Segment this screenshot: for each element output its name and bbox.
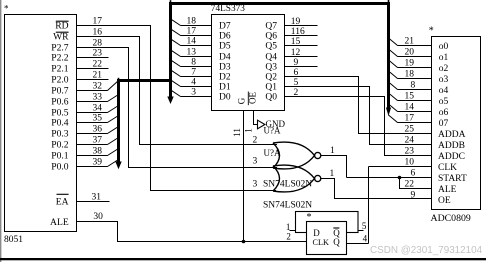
svg-text:o1: o1 [439,53,449,63]
svg-text:Q: Q [333,237,340,247]
svg-text:o0: o0 [439,42,449,52]
svg-text:P2.0: P2.0 [51,75,69,86]
svg-text:o6: o6 [439,108,449,118]
svg-text:o5: o5 [439,97,449,107]
svg-text:*: * [4,4,9,14]
svg-text:Q3: Q3 [265,63,277,73]
svg-text:Q2: Q2 [265,73,277,83]
svg-text:6: 6 [411,168,416,178]
svg-text:P0.0: P0.0 [51,162,69,173]
svg-text:CLK: CLK [438,163,457,173]
svg-text:1: 1 [330,146,335,156]
svg-text:P2.1: P2.1 [51,64,69,75]
svg-text:4: 4 [363,234,368,244]
svg-text:2: 2 [253,135,258,145]
svg-text:G: G [237,97,247,104]
svg-text:9: 9 [411,190,416,200]
svg-text:14: 14 [405,102,415,112]
svg-text:18: 18 [405,69,415,79]
svg-text:3: 3 [253,156,258,166]
svg-text:U?A: U?A [264,126,281,136]
svg-text:D5: D5 [219,42,231,52]
svg-text:D0: D0 [219,93,231,103]
svg-text:WR: WR [53,32,69,43]
svg-text:*: * [307,212,312,223]
svg-text:ADDC: ADDC [438,152,465,162]
svg-text:8: 8 [411,80,416,90]
svg-text:P0.6: P0.6 [51,97,69,108]
svg-text:1: 1 [330,169,335,179]
svg-text:CSDN @2301_79312104: CSDN @2301_79312104 [370,245,483,256]
svg-text:Q6: Q6 [265,32,277,42]
svg-text:P0.4: P0.4 [51,118,69,129]
svg-text:Q4: Q4 [265,53,277,63]
svg-text:1: 1 [244,128,254,133]
svg-text:SN74LS02N: SN74LS02N [263,179,312,189]
svg-text:ALE: ALE [438,185,457,195]
svg-text:8051: 8051 [4,235,23,245]
svg-text:P0.2: P0.2 [51,140,69,151]
svg-text:ALE: ALE [50,217,69,228]
svg-text:30: 30 [93,212,103,222]
svg-text:D4: D4 [219,53,231,63]
svg-text:CLK: CLK [313,238,329,247]
svg-text:D7: D7 [219,22,231,32]
svg-text:23: 23 [405,146,415,156]
svg-text:Q5: Q5 [265,42,277,52]
svg-text:o3: o3 [439,75,449,85]
svg-text:o4: o4 [439,86,449,96]
svg-text:11: 11 [232,128,242,137]
svg-text:ADDB: ADDB [438,141,465,151]
svg-text:19: 19 [405,58,415,68]
svg-text:P0.3: P0.3 [51,129,69,140]
svg-text:15: 15 [405,91,415,101]
svg-text:D3: D3 [219,63,231,73]
svg-text:D1: D1 [219,83,231,93]
svg-text:22: 22 [405,179,415,189]
svg-text:OE: OE [248,92,258,104]
svg-text:5: 5 [362,221,367,231]
svg-text:START: START [438,174,467,184]
svg-text:RD: RD [55,21,68,32]
svg-text:17: 17 [405,113,415,123]
svg-text:P2.2: P2.2 [51,53,69,64]
svg-text:74LS373: 74LS373 [211,4,245,14]
svg-text:25: 25 [405,124,415,134]
svg-text:D: D [313,228,320,238]
svg-text:D6: D6 [219,32,231,42]
svg-text:3: 3 [253,179,258,189]
svg-text:U?A: U?A [264,148,281,158]
svg-text:P0.1: P0.1 [51,151,69,162]
svg-text:2: 2 [286,231,291,241]
svg-text:OE: OE [438,196,451,206]
svg-text:07: 07 [439,119,449,129]
svg-text:Q1: Q1 [265,83,277,93]
svg-text:24: 24 [405,135,415,145]
svg-text:o2: o2 [439,64,449,74]
svg-text:Q0: Q0 [265,93,277,103]
svg-text:*: * [429,26,434,37]
svg-text:ADC0809: ADC0809 [431,213,471,224]
svg-text:ADDA: ADDA [438,130,466,140]
svg-text:10: 10 [405,157,415,167]
svg-text:SN74LS02N: SN74LS02N [263,200,312,210]
svg-text:D2: D2 [219,73,231,83]
svg-text:20: 20 [405,47,415,57]
svg-text:Q7: Q7 [265,22,277,32]
svg-text:21: 21 [405,36,415,46]
svg-text:P0.7: P0.7 [51,86,69,97]
svg-text:EA: EA [56,197,69,208]
